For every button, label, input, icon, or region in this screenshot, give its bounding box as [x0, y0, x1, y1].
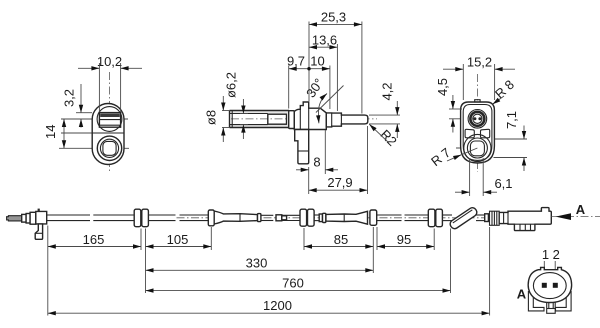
svg-text:ø8: ø8 [204, 110, 219, 125]
svg-text:25,3: 25,3 [321, 10, 346, 25]
svg-text:85: 85 [334, 232, 348, 247]
svg-text:3,2: 3,2 [62, 89, 77, 107]
svg-text:6,1: 6,1 [494, 176, 512, 191]
svg-text:9,7: 9,7 [287, 54, 305, 69]
svg-text:27,9: 27,9 [327, 175, 352, 190]
svg-text:7,1: 7,1 [504, 111, 519, 129]
svg-text:4,2: 4,2 [380, 82, 395, 100]
svg-text:15,2: 15,2 [467, 55, 492, 70]
svg-text:10: 10 [310, 54, 324, 69]
svg-text:10,2: 10,2 [97, 54, 122, 69]
svg-text:1200: 1200 [263, 298, 292, 313]
svg-text:330: 330 [246, 255, 268, 270]
svg-text:A: A [576, 202, 586, 217]
svg-text:95: 95 [397, 232, 411, 247]
svg-text:13,6: 13,6 [312, 32, 337, 47]
svg-text:ø6,2: ø6,2 [224, 72, 239, 98]
svg-text:105: 105 [167, 232, 189, 247]
svg-text:1: 1 [542, 247, 549, 262]
svg-text:165: 165 [83, 232, 105, 247]
svg-text:A: A [517, 287, 527, 302]
svg-text:760: 760 [282, 276, 304, 291]
svg-text:8: 8 [313, 155, 320, 170]
svg-text:2: 2 [553, 247, 560, 262]
svg-text:4,5: 4,5 [435, 78, 450, 96]
svg-text:14: 14 [43, 125, 58, 139]
